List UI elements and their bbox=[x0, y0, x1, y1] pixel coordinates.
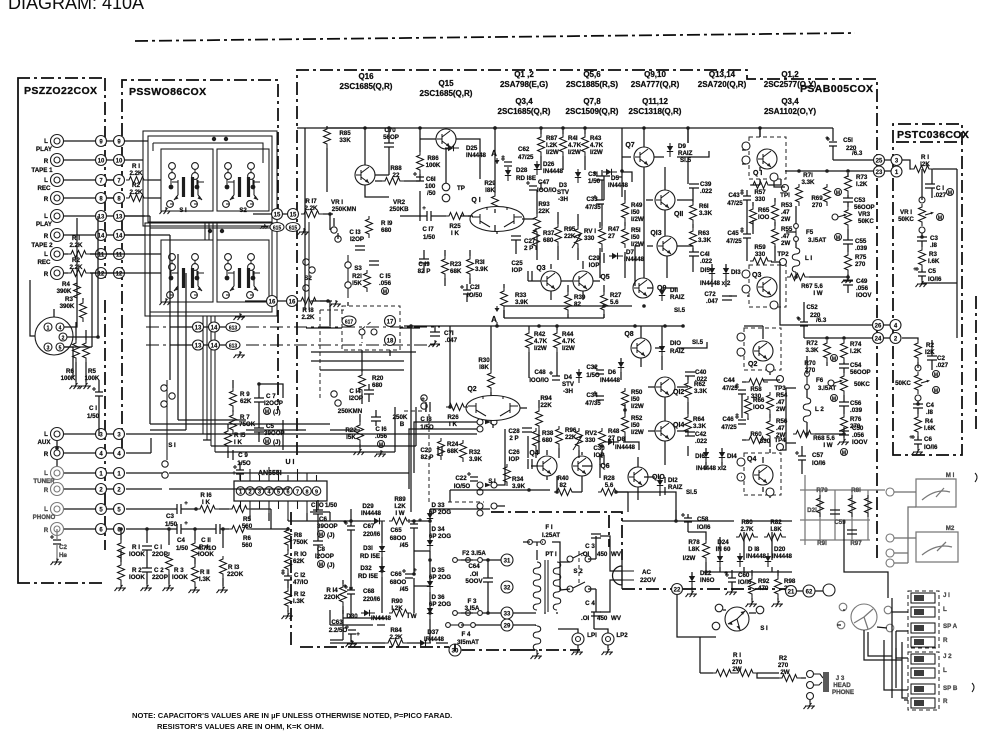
svg-text:IO/I6: IO/I6 bbox=[928, 276, 942, 283]
capacitor C41 .022 bbox=[689, 252, 699, 256]
inductor L2 bbox=[803, 398, 811, 422]
svg-text:HEAD: HEAD bbox=[833, 682, 851, 689]
svg-text:SI.5: SI.5 bbox=[680, 157, 692, 164]
capacitor C56 .039 bbox=[839, 402, 849, 406]
svg-text:2.2/5O: 2.2/5O bbox=[329, 627, 348, 634]
svg-text:2: 2 bbox=[248, 490, 251, 496]
svg-text:R52: R52 bbox=[631, 415, 643, 422]
svg-text:450: 450 bbox=[597, 551, 608, 558]
svg-text:LP2: LP2 bbox=[616, 632, 628, 639]
svg-text:C40: C40 bbox=[695, 369, 707, 376]
wire speaker rail left bbox=[760, 167, 796, 450]
svg-text:R60: R60 bbox=[750, 431, 762, 438]
svg-text:C II: C II bbox=[201, 537, 211, 544]
svg-text:Q3,4: Q3,4 bbox=[781, 97, 799, 106]
sheet top border dash bbox=[135, 33, 855, 41]
svg-text:C44: C44 bbox=[723, 377, 735, 384]
oval terminal 13 row2 bbox=[193, 340, 204, 350]
svg-text:D32: D32 bbox=[360, 565, 372, 572]
capacitor C12 47/10 bbox=[281, 571, 292, 580]
diode D25 IN4448 bbox=[445, 145, 459, 151]
wire rc columns bbox=[121, 550, 223, 586]
svg-text:22OK: 22OK bbox=[227, 571, 244, 578]
slide contacts left lower bbox=[162, 461, 168, 467]
svg-text:AUX: AUX bbox=[37, 439, 51, 446]
diode D9 RAIZ bbox=[667, 143, 673, 157]
resistor R75 270 bbox=[845, 252, 852, 274]
wire mid verticals bbox=[411, 326, 450, 512]
svg-text:C3I: C3I bbox=[588, 171, 598, 178]
svg-text:6P 2OG: 6P 2OG bbox=[429, 509, 451, 516]
dash-dot bottom mid segment bbox=[522, 649, 580, 651]
resistor R3 1.6K pstc bbox=[919, 247, 926, 269]
svg-text:DI4: DI4 bbox=[727, 453, 737, 460]
svg-text:82: 82 bbox=[574, 301, 581, 308]
terminal 25 bbox=[874, 155, 885, 166]
svg-text:C58: C58 bbox=[697, 516, 709, 523]
svg-text:I/2W: I/2W bbox=[631, 241, 644, 248]
svg-text:R63: R63 bbox=[698, 230, 710, 237]
svg-text:TAPE 2: TAPE 2 bbox=[31, 242, 53, 249]
svg-text:270: 270 bbox=[855, 261, 866, 268]
ground 617 bbox=[330, 300, 342, 307]
svg-text:R: R bbox=[44, 158, 49, 165]
capacitor C60 10/16 bbox=[725, 573, 736, 582]
inductor L1 bbox=[792, 248, 800, 272]
svg-text:10: 10 bbox=[116, 159, 123, 165]
svg-text:.47: .47 bbox=[781, 233, 790, 240]
resistor R23 68K bbox=[442, 256, 449, 278]
svg-text:R2: R2 bbox=[72, 257, 80, 264]
terminal 22 bbox=[672, 584, 683, 595]
svg-text:C 3: C 3 bbox=[585, 543, 595, 550]
svg-text:R20: R20 bbox=[372, 375, 384, 382]
svg-text:6: 6 bbox=[286, 490, 289, 496]
wire meters bbox=[894, 492, 916, 563]
wire jack web extra bbox=[868, 598, 908, 700]
node dots rail bbox=[642, 126, 646, 130]
svg-text:R95: R95 bbox=[564, 226, 576, 233]
svg-text:5: 5 bbox=[59, 346, 62, 352]
dash line 13 row bbox=[146, 326, 240, 328]
svg-text:D3I: D3I bbox=[363, 545, 373, 552]
ground c1 bbox=[141, 584, 153, 591]
svg-text:R79: R79 bbox=[816, 487, 828, 494]
svg-text:C22: C22 bbox=[455, 475, 467, 482]
svg-text:C 7: C 7 bbox=[266, 393, 276, 400]
svg-text:QII: QII bbox=[674, 211, 683, 218]
svg-text:TP: TP bbox=[457, 185, 465, 192]
svg-text:1/50: 1/50 bbox=[588, 178, 601, 185]
svg-text:I/2W: I/2W bbox=[631, 429, 644, 436]
wire row 12 bbox=[64, 272, 68, 274]
resistor R6 560 bbox=[229, 526, 251, 533]
diode D14 bbox=[719, 449, 725, 463]
svg-text:TAPE 1: TAPE 1 bbox=[31, 167, 53, 174]
svg-text:F 4: F 4 bbox=[462, 631, 471, 638]
capacitor C44 47/25 bbox=[735, 385, 746, 394]
svg-text:PSTC036COX: PSTC036COX bbox=[897, 129, 969, 141]
capacitor C29 10P bbox=[600, 253, 604, 263]
terminal 6 bbox=[96, 524, 107, 535]
svg-text:2SC2577(O,Y): 2SC2577(O,Y) bbox=[764, 80, 817, 89]
resistor R27 5.6 bbox=[601, 292, 608, 314]
svg-text:50KC: 50KC bbox=[895, 380, 911, 387]
svg-text:2SA1102(O,Y): 2SA1102(O,Y) bbox=[764, 107, 816, 116]
block border PSZZ022COX bbox=[18, 78, 105, 583]
capacitor C65 6800/45 bbox=[407, 519, 418, 528]
resistor R11 1.3K bbox=[192, 564, 199, 586]
terminal 9 bbox=[96, 136, 107, 147]
svg-text:.47: .47 bbox=[776, 425, 785, 432]
svg-text:+: + bbox=[740, 226, 744, 233]
svg-text:C33: C33 bbox=[586, 196, 598, 203]
capacitor C66 6800/45 bbox=[402, 569, 413, 578]
svg-text:+: + bbox=[421, 396, 425, 403]
svg-text:D26: D26 bbox=[543, 161, 555, 168]
svg-text:680: 680 bbox=[381, 227, 392, 234]
capacitor C45 47/25 bbox=[740, 229, 751, 238]
svg-text:I.3K: I.3K bbox=[293, 598, 305, 605]
wire selector rows bbox=[126, 422, 497, 509]
svg-text:8: 8 bbox=[305, 490, 308, 496]
svg-text:47/25: 47/25 bbox=[721, 424, 737, 431]
svg-text:18: 18 bbox=[387, 339, 394, 345]
wire rc rows bbox=[121, 509, 288, 548]
svg-text:LPI: LPI bbox=[587, 632, 597, 639]
resistor R92 470 bbox=[749, 576, 756, 598]
svg-text:+: + bbox=[281, 568, 285, 575]
svg-text:4.7K: 4.7K bbox=[590, 142, 604, 149]
wire row 12b bbox=[90, 272, 96, 274]
svg-text:+: + bbox=[913, 266, 917, 273]
wire pstc top bbox=[922, 169, 957, 283]
svg-text:IOP: IOP bbox=[589, 262, 600, 269]
svg-text:C20: C20 bbox=[420, 447, 432, 454]
oval terminal 615 pair bbox=[270, 223, 284, 232]
svg-text:C2I: C2I bbox=[470, 284, 480, 291]
svg-text:F6: F6 bbox=[816, 377, 824, 384]
diode D6 IN4448 bbox=[618, 359, 624, 373]
svg-text:PHONO: PHONO bbox=[33, 514, 56, 521]
svg-text:C65: C65 bbox=[390, 527, 402, 534]
ground r4 bbox=[189, 586, 201, 593]
svg-text:Q1 ,2: Q1 ,2 bbox=[514, 70, 534, 79]
terminal 1 bbox=[96, 468, 107, 479]
diode D20 IN4448 bbox=[765, 553, 771, 567]
svg-text:2W: 2W bbox=[780, 669, 789, 676]
svg-text:14: 14 bbox=[98, 234, 105, 240]
wire cluster bbox=[676, 514, 792, 600]
svg-text:R4: R4 bbox=[925, 418, 933, 425]
svg-text:I.8K: I.8K bbox=[688, 546, 700, 553]
power transistor Q1 bbox=[749, 137, 786, 179]
V+ rail top bbox=[297, 127, 833, 129]
svg-text:5: 5 bbox=[277, 490, 280, 496]
oval terminal 14 row2 bbox=[209, 340, 220, 350]
meter M2 blurred bbox=[916, 525, 958, 562]
resistor R52 150 1/2W bbox=[622, 414, 629, 436]
svg-text:R I: R I bbox=[921, 154, 929, 161]
wire 613 rows left bbox=[170, 327, 226, 345]
terminal 23 bbox=[874, 166, 885, 177]
svg-text:IO/5O: IO/5O bbox=[454, 483, 471, 490]
jack L TUNER blurred bbox=[51, 467, 64, 480]
resistor R3 100K bbox=[166, 552, 173, 574]
svg-text:2: 2 bbox=[62, 336, 65, 342]
svg-text:R I7: R I7 bbox=[305, 198, 317, 205]
wire row 14 bbox=[64, 234, 96, 236]
capacitor C54 5600P bbox=[839, 364, 849, 368]
svg-text:R64: R64 bbox=[693, 416, 705, 423]
wire tape2 rows right bbox=[124, 216, 170, 273]
AC plug bbox=[613, 566, 623, 585]
svg-text:I50: I50 bbox=[631, 234, 640, 241]
wire q power tops bbox=[740, 128, 763, 356]
border left psab lower bbox=[290, 512, 292, 647]
wire ic stubs bbox=[241, 467, 317, 519]
svg-text:TP3: TP3 bbox=[774, 385, 786, 392]
svg-text:R87: R87 bbox=[546, 135, 558, 142]
svg-text:C5: C5 bbox=[266, 423, 274, 430]
capacitor C27 2P bbox=[511, 236, 521, 240]
wire row 11b bbox=[90, 253, 96, 255]
svg-text:4.7K: 4.7K bbox=[568, 142, 582, 149]
terminal 17 bbox=[385, 316, 396, 327]
svg-text:5.6: 5.6 bbox=[610, 299, 619, 306]
terminal 15 pair bbox=[272, 209, 283, 220]
resistor R33 3.9K bbox=[501, 288, 508, 310]
svg-text:R57: R57 bbox=[754, 189, 766, 196]
wire loop row2 outer bbox=[150, 228, 272, 312]
terminal 10 bbox=[96, 155, 107, 166]
svg-text:13: 13 bbox=[98, 215, 105, 221]
svg-text:50KC: 50KC bbox=[898, 216, 914, 223]
svg-text:R I: R I bbox=[132, 163, 140, 170]
dashed box rec switch bbox=[342, 306, 400, 350]
svg-text:D20: D20 bbox=[774, 546, 786, 553]
svg-text:RV2: RV2 bbox=[585, 430, 597, 437]
resistor R85 33K bbox=[324, 126, 331, 148]
svg-text:16: 16 bbox=[289, 300, 296, 306]
wire r17 drop bbox=[329, 214, 331, 230]
svg-text:14: 14 bbox=[211, 344, 218, 350]
svg-text:I5K: I5K bbox=[346, 434, 356, 441]
svg-text:D28: D28 bbox=[516, 167, 528, 174]
svg-text:+: + bbox=[501, 154, 505, 161]
capacitor C47 100/10 bbox=[526, 181, 537, 190]
svg-text:Hɕ: Hɕ bbox=[59, 552, 67, 559]
svg-text:-3H: -3H bbox=[563, 388, 574, 395]
svg-text:6P 2OG: 6P 2OG bbox=[429, 533, 451, 540]
resistor R55 .47 2W bbox=[772, 226, 779, 248]
svg-text:250KMN: 250KMN bbox=[338, 408, 363, 415]
svg-text:C I4: C I4 bbox=[349, 388, 361, 395]
svg-text:22OP: 22OP bbox=[152, 574, 168, 581]
capacitor C42 .022 bbox=[685, 432, 695, 436]
IC pin 4 bbox=[265, 487, 274, 496]
svg-text:2 P: 2 P bbox=[509, 435, 518, 442]
svg-text:22K: 22K bbox=[538, 208, 550, 215]
svg-text:M: M bbox=[832, 357, 836, 363]
svg-text:68OO: 68OO bbox=[390, 535, 407, 542]
svg-text:2SC1509(Q,R): 2SC1509(Q,R) bbox=[566, 107, 619, 116]
svg-text:I50: I50 bbox=[631, 209, 640, 216]
svg-text:IOOK: IOOK bbox=[198, 551, 214, 558]
block border PSAB005COX main amp board bbox=[297, 70, 877, 560]
svg-text:+: + bbox=[184, 520, 188, 527]
svg-text:D25: D25 bbox=[466, 145, 478, 152]
M mark e bbox=[841, 449, 848, 457]
svg-text:S I: S I bbox=[179, 207, 187, 214]
svg-text:R23: R23 bbox=[450, 261, 462, 268]
svg-text:617: 617 bbox=[345, 320, 354, 326]
svg-text:50KC: 50KC bbox=[858, 218, 874, 225]
svg-text:15: 15 bbox=[290, 213, 297, 219]
svg-text:2.2K: 2.2K bbox=[301, 314, 315, 321]
power transistor Q3 bbox=[749, 265, 786, 307]
svg-text:R27: R27 bbox=[610, 292, 622, 299]
supply rail top bbox=[330, 520, 354, 522]
svg-text:47/IO: 47/IO bbox=[293, 579, 308, 586]
svg-text:I W: I W bbox=[813, 290, 822, 297]
switch S3 unit (tape2 row) bbox=[161, 240, 213, 302]
svg-text:M: M bbox=[934, 373, 938, 379]
svg-text:C I: C I bbox=[936, 185, 944, 192]
svg-text:IN4448: IN4448 bbox=[746, 553, 767, 560]
svg-text:3.I5AT: 3.I5AT bbox=[818, 385, 836, 392]
capacitor C5 3900P bbox=[254, 428, 264, 432]
svg-text:C68: C68 bbox=[363, 588, 375, 595]
ground 613b bbox=[234, 351, 246, 358]
resistor R32 3.9K bbox=[460, 440, 467, 462]
resistor R31 3.9K bbox=[467, 256, 474, 278]
svg-text:R I8: R I8 bbox=[302, 307, 314, 314]
resistor R68 5.6 1W bbox=[793, 431, 815, 438]
wire aux down bbox=[56, 441, 58, 466]
svg-text:3.9K: 3.9K bbox=[469, 456, 483, 463]
svg-text:3.9K: 3.9K bbox=[512, 483, 526, 490]
svg-text:RD I5E: RD I5E bbox=[360, 553, 380, 560]
svg-text:I2OP: I2OP bbox=[349, 395, 363, 402]
ground r76 bbox=[838, 438, 850, 445]
svg-text:+: + bbox=[825, 135, 829, 142]
svg-text:IO/50: IO/50 bbox=[467, 292, 483, 299]
svg-text:21: 21 bbox=[788, 590, 795, 596]
svg-text:250KB: 250KB bbox=[389, 206, 409, 213]
svg-text:(J): (J) bbox=[327, 532, 335, 539]
svg-text:R86: R86 bbox=[427, 155, 439, 162]
svg-text:I2OP: I2OP bbox=[350, 236, 364, 243]
terminal 18 bbox=[385, 335, 396, 346]
svg-text:.039: .039 bbox=[850, 407, 863, 414]
svg-text:D37: D37 bbox=[427, 629, 439, 636]
M mark d bbox=[831, 395, 838, 403]
resistor R84 zigzag bbox=[385, 640, 407, 647]
jack L REC tape1 bbox=[51, 174, 64, 187]
svg-text:R I4: R I4 bbox=[326, 587, 338, 594]
svg-text:RAIZ: RAIZ bbox=[678, 150, 693, 157]
svg-text:F2 3.I5A: F2 3.I5A bbox=[462, 550, 486, 557]
capacitor C62 47/25 bbox=[501, 157, 512, 166]
svg-text:R39: R39 bbox=[574, 294, 586, 301]
svg-text:C7I: C7I bbox=[444, 330, 454, 337]
resistor R56 .47 2W bbox=[767, 418, 774, 440]
capacitor C4 1/50 bbox=[177, 524, 181, 534]
wire r8 column bbox=[287, 549, 289, 612]
svg-text:L: L bbox=[44, 213, 48, 220]
svg-text:AC: AC bbox=[642, 569, 651, 576]
svg-text:R75: R75 bbox=[855, 254, 867, 261]
oval terminal 613 bbox=[226, 323, 240, 332]
ground S1 bbox=[160, 207, 172, 214]
svg-text:Q13,14: Q13,14 bbox=[709, 70, 736, 79]
svg-text:D24: D24 bbox=[717, 539, 729, 546]
svg-text:M I: M I bbox=[946, 472, 955, 479]
diode D15 bbox=[709, 265, 715, 279]
svg-text:R28: R28 bbox=[603, 475, 615, 482]
svg-text:Q7,8: Q7,8 bbox=[583, 97, 601, 106]
capacitor C58 10/16 bbox=[681, 513, 692, 522]
junction ball bbox=[823, 584, 835, 596]
svg-text:3I5mAT: 3I5mAT bbox=[457, 639, 479, 646]
capacitor C22 10/50 bbox=[467, 472, 478, 481]
svg-text:R2I: R2I bbox=[352, 273, 362, 280]
svg-text:R34: R34 bbox=[512, 476, 524, 483]
ground 615 left bbox=[260, 224, 268, 229]
svg-text:.47: .47 bbox=[781, 209, 790, 216]
svg-text:L 2: L 2 bbox=[815, 406, 824, 413]
diode D7 IN4448 bbox=[609, 253, 623, 259]
terminal 11 bbox=[96, 249, 107, 260]
resistor R41 4.7K 1/2W bbox=[560, 134, 567, 156]
svg-text:R69: R69 bbox=[811, 195, 823, 202]
potentiometer VR4 50KC bbox=[841, 373, 848, 395]
svg-text:C48: C48 bbox=[534, 369, 546, 376]
terminal 4 bbox=[96, 448, 107, 459]
jack R PHONO blurred bbox=[51, 523, 64, 536]
terminal 4 psab bbox=[890, 320, 901, 331]
svg-text:VR I: VR I bbox=[900, 209, 912, 216]
svg-text:56OP: 56OP bbox=[383, 134, 399, 141]
svg-text:220/I6: 220/I6 bbox=[363, 531, 381, 538]
svg-text:R50: R50 bbox=[631, 389, 643, 396]
blur network R77 R79 R81 bbox=[800, 475, 894, 567]
rotary switch right blurred bbox=[837, 603, 894, 632]
svg-text:26: 26 bbox=[875, 324, 882, 330]
resistor R67 5.6 1W bbox=[787, 274, 809, 281]
resistor R51 150 1/2W bbox=[622, 226, 629, 248]
terminal 2 bbox=[96, 484, 107, 495]
diode D16 bbox=[703, 449, 709, 463]
svg-text:3: 3 bbox=[47, 346, 50, 352]
svg-text:S3: S3 bbox=[354, 265, 362, 272]
ground r13 bbox=[217, 586, 229, 593]
svg-text:IN 60: IN 60 bbox=[716, 546, 731, 553]
svg-text:IOOV: IOOV bbox=[856, 292, 872, 299]
resistor R61 3.3K bbox=[690, 202, 697, 224]
svg-text:I.6K: I.6K bbox=[928, 258, 940, 265]
svg-text:2 P: 2 P bbox=[524, 245, 533, 252]
M mark pstc d bbox=[933, 387, 940, 395]
svg-text:R: R bbox=[943, 637, 948, 644]
svg-text:27: 27 bbox=[608, 233, 615, 240]
wire loop row2 outer2 bbox=[145, 223, 277, 316]
svg-text:.056: .056 bbox=[379, 280, 392, 287]
svg-text:L: L bbox=[44, 431, 48, 438]
resistor R50 150 1/2W bbox=[622, 388, 629, 410]
svg-text:R30: R30 bbox=[478, 357, 490, 364]
